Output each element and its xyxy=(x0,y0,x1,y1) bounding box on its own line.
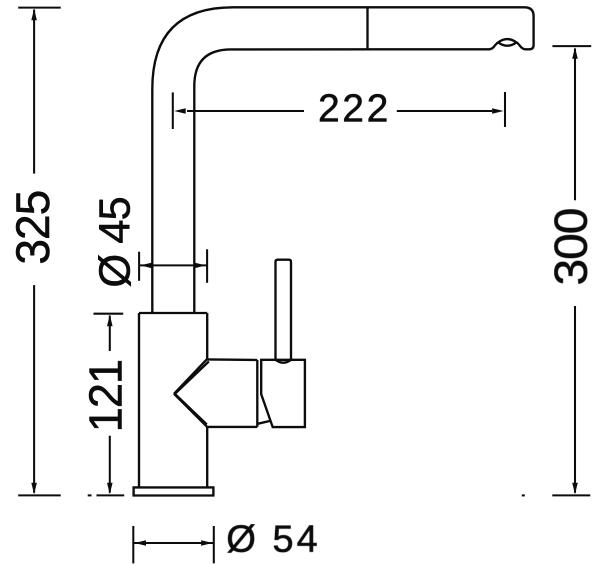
dim 222 right tick xyxy=(504,92,506,127)
svg-text:300: 300 xyxy=(545,209,596,286)
dim d45 line xyxy=(139,264,207,266)
dim 121 bottom tick dash-dot xyxy=(88,494,92,496)
aerator lens on spout underside xyxy=(498,39,516,46)
dim d54 right tick xyxy=(213,526,215,563)
collar bottom line xyxy=(258,421,272,424)
handle grip body xyxy=(261,360,305,427)
base plate xyxy=(134,487,214,495)
svg-text:222: 222 xyxy=(318,87,391,130)
dim d54 line xyxy=(133,542,214,544)
faucet body top edge xyxy=(139,312,207,314)
handle cone upper outer edge xyxy=(174,359,207,394)
dim 222 line right xyxy=(397,110,492,112)
dim 121 line upper xyxy=(109,316,111,352)
dim 121 line lower xyxy=(109,436,111,493)
handle cone lower inner edge xyxy=(174,393,207,424)
lever rounded base arc xyxy=(276,360,292,363)
dim 325 top tick xyxy=(18,7,61,9)
faucet body left edge xyxy=(138,313,140,487)
svg-text:325: 325 xyxy=(6,191,59,265)
arrow 121 down xyxy=(107,483,113,495)
arrow 325 up xyxy=(31,9,37,20)
svg-text:Ø 54: Ø 54 xyxy=(226,519,320,561)
handle cone lower outer edge xyxy=(174,394,207,427)
arrow 325 down xyxy=(31,483,37,495)
dim 121 top tick xyxy=(94,313,124,315)
handle hub top edge xyxy=(207,358,257,361)
arrow d54 right xyxy=(201,540,213,546)
dim 222 left tick xyxy=(172,92,174,129)
dim 325 line lower xyxy=(33,285,35,493)
pull-out head divider line xyxy=(366,7,368,49)
dim d54 left tick xyxy=(132,526,134,563)
handle cone upper inner edge xyxy=(174,361,209,394)
arrow 222 right xyxy=(492,108,504,114)
arrow 300 up xyxy=(572,47,578,59)
arrow d45 left xyxy=(140,263,152,269)
dim 300 bottom tick xyxy=(552,494,590,496)
svg-text:Ø 45: Ø 45 xyxy=(92,197,140,287)
dim 325 bottom tick xyxy=(18,494,61,496)
faucet body right edge upper segment xyxy=(206,313,208,359)
arrow d54 left xyxy=(135,540,147,546)
svg-text:121: 121 xyxy=(80,360,132,432)
faucet body right edge lower segment xyxy=(206,427,208,488)
arrow d45 right xyxy=(194,263,206,269)
dim d45 left tick xyxy=(138,252,140,281)
arrow 300 down xyxy=(572,483,578,495)
dim d45 right tick xyxy=(206,249,208,282)
lever stick xyxy=(276,260,292,361)
arrow 222 left xyxy=(174,108,186,114)
dim 121 bottom tick xyxy=(97,494,125,496)
dim 300 top tick xyxy=(552,45,591,47)
dim 300 line lower xyxy=(574,306,576,493)
dim 300 bottom tick dash-dot xyxy=(522,494,525,496)
dim 300 line upper xyxy=(574,49,576,201)
dim 325 line upper xyxy=(33,10,35,174)
handle hub right edge (ring left line) xyxy=(256,360,258,427)
dim 222 line left xyxy=(187,110,304,112)
arrow 121 up xyxy=(107,315,113,327)
faucet outer profile (riser pipe, curve, spout top, spout end) xyxy=(152,7,533,313)
handle hub bottom edge xyxy=(207,426,257,428)
